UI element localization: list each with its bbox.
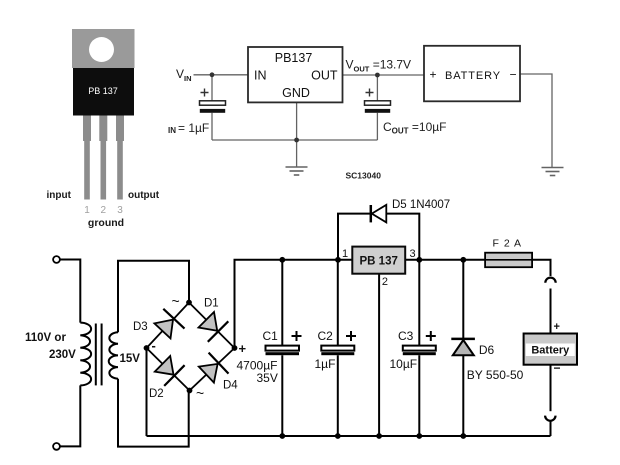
package mounting hole (89, 37, 114, 62)
svg-text:OUT: OUT (311, 69, 338, 83)
regulator block PB137 (248, 47, 343, 102)
diode D4 (199, 353, 229, 383)
svg-text:IN: IN (254, 69, 267, 83)
terminal circle bottom (53, 443, 60, 450)
pin 2 leg (99, 116, 107, 142)
svg-text:output: output (128, 190, 160, 201)
diode D6 (451, 339, 475, 355)
svg-text:35V: 35V (257, 371, 278, 385)
wire battery minus lead (550, 365, 552, 412)
wire OUT to battery (343, 74, 425, 76)
node pin1 junction (335, 257, 341, 263)
bridge diamond wires (147, 303, 235, 391)
label C3 plus (426, 331, 436, 341)
wire CIN top lead (211, 75, 213, 101)
wire secondary top to bridge AC top (118, 261, 189, 332)
node bridge right (232, 345, 238, 351)
svg-text:C3: C3 (398, 329, 414, 343)
svg-text:ground: ground (88, 217, 124, 229)
svg-text:C2: C2 (318, 329, 334, 343)
svg-text:D5 1N4007: D5 1N4007 (392, 199, 450, 211)
wire battery bottom to rail (550, 422, 552, 437)
wire COUT top lead (376, 75, 378, 101)
wire C2 leads (337, 260, 339, 346)
node bridge top (186, 300, 192, 306)
svg-text:−: − (554, 361, 561, 375)
node C3 bottom junction (416, 433, 422, 439)
wire secondary bottom to bridge AC bottom (118, 379, 189, 447)
wire C1 leads (281, 260, 283, 346)
transformer core (95, 324, 97, 386)
svg-text:10µF: 10µF (390, 357, 418, 371)
wire bottom rail (147, 435, 551, 437)
connector curl bottom (545, 416, 555, 421)
wire GND to ground symbol (296, 140, 298, 167)
svg-text:SC13040: SC13040 (346, 171, 382, 181)
wire battery plus lead (550, 289, 552, 334)
capacitor C1 (266, 346, 300, 356)
diode D5 (372, 205, 387, 223)
svg-text:15V: 15V (120, 353, 141, 365)
svg-text:PB 137: PB 137 (88, 86, 118, 96)
transformer primary winding (80, 323, 91, 386)
node C1 top junction (279, 257, 285, 263)
label C1 plus (292, 331, 302, 341)
label C2 plus (346, 331, 356, 341)
node C1 bottom junction (279, 433, 285, 439)
svg-text:D4: D4 (223, 380, 238, 392)
pin 1 leg (83, 116, 91, 142)
node VOUT junction (375, 73, 380, 78)
svg-text:2: 2 (382, 276, 388, 288)
svg-text:−: − (510, 68, 517, 82)
terminal circle top (53, 256, 60, 263)
ground symbol battery side (542, 168, 564, 176)
svg-text:D2: D2 (149, 388, 164, 400)
svg-text:~: ~ (172, 293, 180, 309)
capacitor COUT plus (366, 89, 374, 97)
wire regulator pin2 to rail (378, 274, 380, 436)
ground symbol below GND (286, 167, 308, 175)
wire mains top lead (60, 260, 80, 323)
svg-text:230V: 230V (49, 349, 76, 361)
svg-text:-: - (152, 338, 156, 353)
wire bridge plus to top rail (235, 260, 486, 348)
svg-text:= 1µF: = 1µF (178, 121, 209, 135)
svg-text:1: 1 (342, 248, 348, 260)
svg-text:~: ~ (196, 385, 204, 401)
svg-text:Battery: Battery (531, 345, 570, 357)
svg-text:1: 1 (84, 205, 90, 216)
svg-text:PB137: PB137 (275, 51, 313, 65)
node pin2 bottom junction (376, 433, 382, 439)
svg-text:+: + (554, 321, 560, 333)
capacitor C3 (403, 346, 436, 356)
node bridge bottom (187, 388, 193, 394)
svg-text:110V or: 110V or (25, 332, 66, 344)
diode D3 (154, 309, 184, 339)
regulator PB 137 (352, 247, 405, 274)
svg-text:D1: D1 (204, 298, 219, 310)
node bridge left (144, 345, 150, 351)
svg-text:2: 2 (101, 205, 107, 216)
wire VIN to IN (194, 74, 249, 76)
wire mains bottom lead (60, 385, 80, 446)
capacitor C2 (321, 346, 354, 356)
svg-text:3: 3 (410, 248, 416, 260)
connector curl top (545, 278, 555, 283)
svg-text:C1: C1 (263, 329, 279, 343)
svg-text:D6: D6 (479, 343, 495, 357)
capacitor CIN (200, 101, 226, 105)
node GND junction (294, 138, 299, 143)
wire battery to ground (520, 74, 552, 168)
node C2 bottom junction (335, 433, 341, 439)
battery block (424, 46, 520, 102)
svg-text:3: 3 (117, 205, 123, 216)
transformer secondary winding (109, 332, 118, 379)
diode D5 cathode bar (370, 205, 373, 222)
svg-text:IN: IN (168, 126, 176, 135)
fuse F2A (485, 253, 532, 268)
wire COUT bottom lead (376, 113, 378, 140)
node VIN junction (210, 72, 215, 77)
wire bridge minus to bottom rail (146, 348, 148, 436)
wire bottom rail CIN to COUT (212, 139, 377, 141)
svg-text:+: + (239, 341, 247, 356)
capacitor COUT (365, 101, 391, 105)
svg-text:D3: D3 (133, 321, 148, 333)
wire GND pin (296, 102, 298, 140)
svg-text:+: + (430, 68, 437, 82)
svg-text:F 2 A: F 2 A (493, 238, 523, 250)
diode D2 (155, 356, 185, 386)
node D6 bottom junction (460, 433, 466, 439)
wire D5 bypass loop (338, 214, 370, 260)
svg-text:PB 137: PB 137 (360, 256, 398, 268)
wire CIN bottom lead (211, 113, 213, 140)
package tab (72, 29, 135, 68)
wire top rail after fuse (532, 260, 550, 276)
wire C3 leads (418, 260, 420, 346)
diode D1 (199, 312, 229, 342)
node D6 top junction (460, 257, 466, 263)
svg-text:GND: GND (282, 86, 310, 100)
package body (73, 68, 134, 116)
wire D6 leads (462, 260, 464, 339)
svg-text:input: input (47, 190, 72, 201)
pin 3 leg (116, 116, 124, 142)
battery box (524, 334, 577, 365)
svg-text:BY 550-50: BY 550-50 (467, 368, 524, 382)
svg-text:BATTERY: BATTERY (445, 70, 501, 82)
node pin3 junction (416, 257, 422, 263)
svg-text:1µF: 1µF (315, 357, 336, 371)
capacitor CIN plus (201, 89, 209, 97)
